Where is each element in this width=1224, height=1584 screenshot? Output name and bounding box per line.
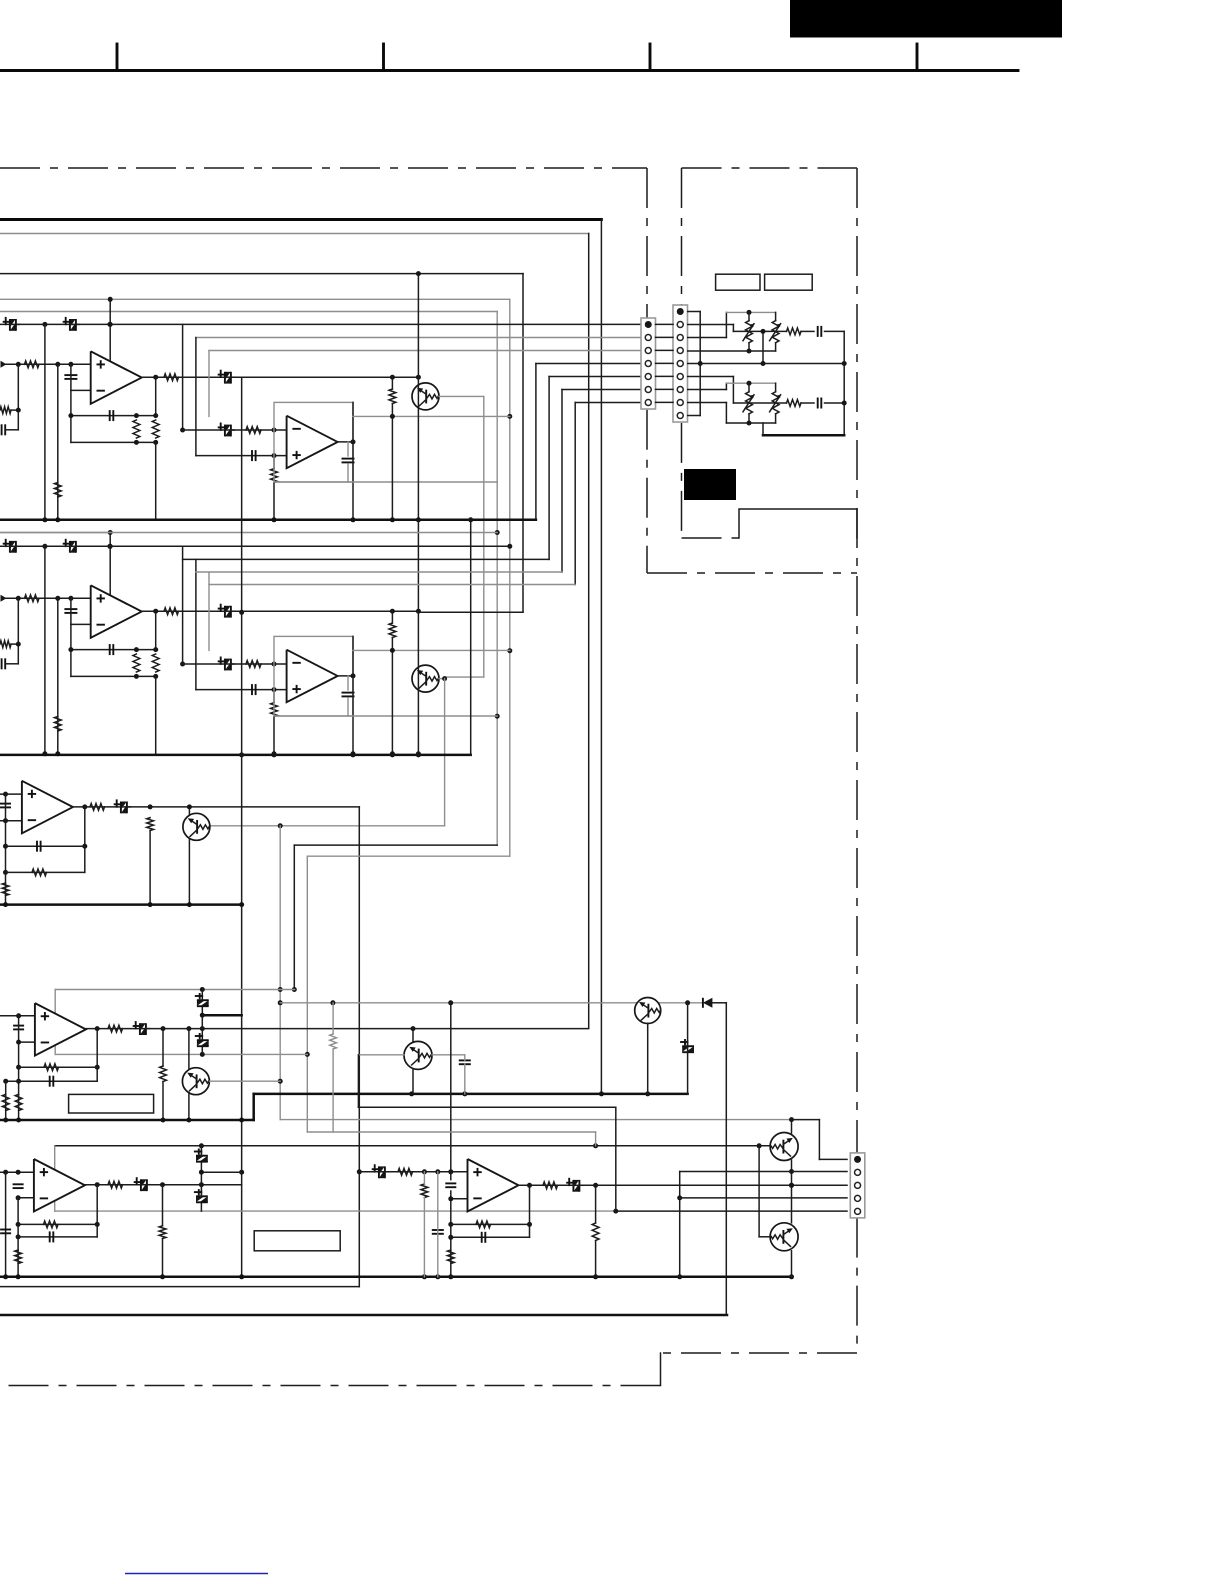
ferrite bead cap on rail 2 — [70, 319, 76, 331]
wire second stage output — [338, 675, 353, 677]
wire ch2 out row extension — [418, 611, 523, 613]
wire vertical x523 — [522, 274, 524, 613]
wire b3 vertical to block5 — [358, 807, 360, 1287]
input coupling cap — [64, 608, 77, 610]
ferrite bead cap on rail 1 — [10, 319, 16, 331]
ferrite bead cap on rail 2 — [70, 541, 76, 553]
wire 5b fb cap row — [451, 1236, 530, 1238]
potentiometer 1a — [748, 312, 750, 320]
wire row 1107 — [358, 1106, 615, 1108]
wire 5b minus row — [451, 1198, 468, 1200]
wire x679 vertical — [679, 1172, 681, 1277]
5b shunt resistor — [421, 1184, 428, 1198]
wire x294 drop — [293, 845, 295, 989]
wire grey row 1133.8 — [307, 1131, 595, 1133]
5a electrolytic cap — [141, 1179, 147, 1191]
wire feedback tail to bus — [155, 442, 157, 519]
series cap on plus row — [251, 450, 253, 461]
bias resistor to edge — [0, 407, 11, 414]
wire CN2 pin8 stub — [688, 402, 727, 404]
second stage series resistor — [246, 661, 261, 668]
b4 feedback cap — [49, 1076, 51, 1087]
wire pot1 wiper row — [733, 330, 786, 332]
wire feedback vertical — [70, 390, 72, 442]
wire x615 vertical — [615, 1107, 617, 1211]
pot network 1 bottom row — [688, 350, 776, 352]
transistor q6 — [404, 1041, 432, 1069]
feedback resistor 2 — [152, 654, 159, 672]
op-amp 5A — [34, 1159, 85, 1212]
5a label box — [254, 1231, 340, 1251]
5a feedback cap — [49, 1231, 51, 1242]
wire b4 transistor emitter row — [210, 1080, 281, 1082]
connector CN3 — [850, 1153, 865, 1218]
op-amp supply vertical — [109, 533, 111, 597]
output load cap — [347, 442, 349, 456]
wire main vertical x418 — [416, 517, 421, 522]
5b ground resistor — [447, 1250, 454, 1264]
wire feedback row 1 — [71, 649, 156, 651]
op-amp 5B — [468, 1159, 519, 1212]
electrolytic cap on minus row — [225, 659, 231, 671]
zener bead — [682, 1046, 694, 1052]
wire b4 shield left — [54, 990, 56, 1055]
wire nested loop left vertical 1 — [182, 546, 184, 664]
wire CN3 pin1 link — [792, 1119, 820, 1121]
wire CN2 pin bus x700 — [688, 311, 701, 313]
dash-dot boundary top — [0, 167, 647, 169]
wire b4 shield bottom row — [55, 1053, 307, 1055]
b4 electrolytic cap — [140, 1023, 146, 1035]
wire CN2 pin7 stub — [688, 389, 727, 391]
wire channel1 main vertical — [417, 274, 419, 520]
wire q6 top — [412, 1029, 414, 1043]
wire row 273.6 — [0, 273, 523, 275]
rail dropper vertical 1 — [44, 324, 46, 519]
dash-dot boundary elbow row — [647, 572, 857, 574]
wire q2b base link — [758, 1146, 760, 1237]
b4 feedback resistor — [44, 1064, 59, 1071]
wire nested loop left vertical 1 — [182, 324, 184, 430]
5a ground resistor — [15, 1250, 22, 1264]
wire 5b input row — [359, 1171, 467, 1173]
b3 electrolytic cap — [121, 802, 127, 814]
wire transistor emitter row — [439, 678, 445, 680]
wire q1b collector — [791, 1120, 793, 1133]
wire CN2 pin2 stub — [688, 324, 734, 326]
wire bead row segment — [42, 544, 47, 549]
wire grey row 1120 — [280, 1119, 791, 1121]
wire box right vertical to bus — [352, 402, 354, 519]
wire vertical x535 — [535, 364, 537, 520]
wire nested loop left vertical 2 — [195, 560, 197, 690]
bus block 5 — [0, 1276, 792, 1279]
wire pot2 return vertical — [843, 364, 845, 436]
wire row 559.4 — [183, 558, 549, 560]
wire 5b fb vertical — [529, 1185, 531, 1237]
dashed main right boundary — [856, 168, 858, 1152]
wire 1107 left corner — [357, 1055, 359, 1108]
input signal arrow — [1, 361, 7, 368]
wire q-chain vertical x280 — [278, 823, 283, 828]
wire main vertical x418 — [416, 751, 421, 756]
wire bus2 to bus1 riser — [470, 520, 472, 755]
wire 5b plus vertical — [450, 1003, 452, 1180]
wire second stage minus row — [183, 663, 287, 665]
op-amp first stage — [91, 351, 142, 404]
plus bias resistor — [271, 703, 278, 717]
5b output resistor — [543, 1182, 558, 1189]
series cap on plus row — [251, 684, 253, 695]
thermal transistor — [412, 383, 439, 410]
wire nested loop left vertical 2 — [195, 338, 197, 456]
blue reference underline — [125, 1573, 268, 1575]
wire corner vertical x726 — [725, 1003, 727, 1315]
b4 ground resistor 2 — [15, 1094, 22, 1110]
input signal arrow — [1, 595, 7, 602]
wire row 233.5 — [0, 233, 589, 235]
electrolytic cap on minus row — [225, 425, 231, 437]
plus bias resistor — [271, 469, 278, 483]
wire transistor emitter row — [439, 395, 484, 397]
potentiometer 2b — [775, 383, 777, 391]
wire CN2 pin3 stub — [688, 337, 727, 339]
wire mid row to x509 — [353, 649, 510, 651]
wire feedback tail to bus — [155, 676, 157, 753]
boundary elbow — [660, 1353, 662, 1386]
rail dropper vertical 2 — [57, 598, 59, 754]
wire nested loop left vertical 3 — [208, 351, 210, 417]
wire b4 left vertical — [18, 1016, 20, 1120]
thermal transistor — [412, 665, 439, 692]
wire vertical x549 — [548, 377, 550, 560]
bus4 riser — [252, 1094, 255, 1120]
b4 output resistor — [108, 1025, 123, 1032]
fold tick 4 — [916, 44, 919, 71]
wire to inverting input — [70, 598, 72, 624]
5b electrolytic cap — [573, 1180, 579, 1192]
wire box bottom row — [274, 715, 497, 717]
wire b3 plus row — [0, 793, 22, 795]
op-amp first stage — [91, 585, 142, 638]
bias resistor to edge — [0, 641, 11, 648]
wire q5 bottom — [647, 1024, 649, 1094]
rail dropper resistor — [54, 716, 61, 731]
feedback resistor 1 — [133, 420, 140, 438]
op-amp block4 — [35, 1003, 86, 1056]
input series resistor — [25, 361, 40, 368]
b4 label box — [69, 1094, 154, 1113]
5b feedback cap — [481, 1232, 483, 1243]
wire row 311.5 — [0, 311, 497, 313]
wire b3 output row — [73, 806, 359, 808]
5b input resistor — [398, 1168, 413, 1175]
transistor pull resistor — [389, 623, 396, 638]
transistor q2b — [770, 1223, 798, 1251]
wire 5b fb res row — [451, 1223, 530, 1225]
wire output row — [142, 610, 419, 612]
rail dropper vertical 1 — [44, 546, 46, 754]
b4 bead cap 2 — [197, 1040, 209, 1046]
wire CN1 pin5 row — [549, 376, 641, 378]
wire row 856 — [307, 855, 510, 857]
wire q1b emitter — [791, 1160, 793, 1223]
page title rule — [0, 69, 1018, 72]
wire b4 fb cap row — [6, 1080, 98, 1082]
rail dropper vertical 2 — [57, 364, 59, 520]
5b input bead cap — [379, 1166, 385, 1178]
wire 5a fb res row — [18, 1223, 97, 1225]
bus channel 1 — [0, 519, 536, 522]
pot network 2 bottom row — [726, 422, 775, 424]
transistor q1b — [770, 1133, 798, 1161]
5a bead cap 1 — [196, 1156, 208, 1162]
pot network 1 top row — [726, 311, 775, 313]
protection diode — [702, 998, 704, 1008]
shield box around second stage — [274, 402, 353, 482]
wire 5b minus vertical — [450, 1191, 452, 1277]
5a output resistor — [108, 1181, 123, 1188]
pot1 series cap — [817, 326, 819, 337]
wire 5a link row — [201, 1171, 241, 1173]
5b load resistor — [592, 1223, 599, 1241]
b4 input cap — [13, 1025, 24, 1027]
output series resistor — [164, 374, 179, 381]
wire vertical x562 — [561, 390, 563, 573]
potentiometer 1b — [775, 312, 777, 320]
5b shunt cap — [432, 1229, 444, 1231]
dash-dot boundary vertical left of CN1 — [646, 168, 648, 318]
op-amp supply vertical — [109, 299, 111, 362]
b4 thermal transistor — [188, 1029, 190, 1069]
wire output row — [142, 376, 419, 378]
wire ch2 grey row — [0, 532, 497, 534]
main board border top — [0, 218, 601, 221]
redacted title block — [790, 0, 1062, 38]
5a feedback resistor — [44, 1221, 59, 1228]
b3 thermal transistor — [188, 807, 190, 814]
wire bead row segment — [42, 322, 47, 327]
5b feedback resistor — [476, 1221, 491, 1228]
feedback resistor 2 — [152, 420, 159, 438]
electrolytic cap on output row — [225, 606, 231, 618]
wire x333 resistor — [332, 1003, 334, 1034]
wire power row — [0, 532, 110, 534]
dashed sub-board box left edge — [681, 168, 683, 305]
wire ch1 transistor drop x483 — [483, 396, 485, 677]
ferrite bead cap on rail 1 — [10, 541, 16, 553]
wire ch2 transistor drop x444 — [442, 676, 447, 681]
wire channel2 main vertical — [417, 520, 419, 755]
output load cap — [347, 676, 349, 690]
wire CN1 pin4 row — [536, 363, 641, 365]
wire b4 shield top row — [55, 989, 294, 991]
wire b4 fb res row — [19, 1066, 98, 1068]
5a bead column — [200, 1146, 202, 1211]
wire CN1 pin2 row — [196, 337, 641, 339]
wire b3 minus row — [0, 820, 22, 822]
wire feedback row 2 — [71, 675, 156, 677]
wire q2b emitter — [791, 1251, 793, 1277]
b3 feedback cap — [36, 841, 38, 852]
output series resistor — [164, 608, 179, 615]
b3 load resistor — [147, 818, 154, 831]
CN1-CN2 link stubs — [656, 323, 674, 325]
b3 ground resistor — [2, 883, 9, 896]
wire pot1 return corner — [843, 331, 845, 363]
wire 5a plus row — [0, 1171, 34, 1173]
5a load resistor — [159, 1226, 166, 1239]
fold tick 3 — [649, 44, 652, 71]
wire 5a top row — [55, 1145, 770, 1147]
bus channel 2 — [0, 754, 471, 757]
wire b3 feedback res row — [6, 871, 85, 873]
wire CN1 pin3 row — [209, 350, 641, 352]
bias capacitor to edge — [1, 424, 3, 435]
sub-board small rectangle 2 — [765, 274, 813, 290]
wire CN1 pin6 row — [562, 389, 641, 391]
wire pot2 thick return — [763, 434, 844, 437]
wire b4 output row — [86, 1028, 589, 1030]
wire CN1 pin7 row — [575, 402, 641, 404]
wire ch2 bead row — [0, 545, 510, 547]
feedback capacitor — [109, 644, 111, 655]
wire b4 plus row — [0, 1015, 35, 1017]
feedback capacitor — [109, 410, 111, 421]
wire 5a fb cap row — [18, 1236, 97, 1238]
wire vertical x509 — [509, 299, 511, 856]
wire feedback vertical — [70, 624, 72, 676]
feedback resistor 1 — [133, 654, 140, 672]
wire vertical x497 — [496, 312, 498, 846]
wire box right vertical to bus — [352, 636, 354, 753]
wire 5a fb vertical — [96, 1185, 98, 1237]
rail dropper resistor — [54, 482, 61, 497]
wire mid row to x509 — [353, 415, 510, 417]
b4 bead column — [201, 990, 203, 1055]
wire 5a minus vertical — [17, 1198, 19, 1277]
wire b3 left vertical — [5, 794, 7, 905]
b4 ground resistor 1 — [2, 1094, 9, 1110]
wire b4 edge vertical — [5, 1081, 7, 1120]
op-amp block3 — [22, 781, 73, 834]
second stage series resistor — [246, 427, 261, 434]
input coupling cap — [64, 374, 77, 376]
shield box around second stage — [274, 636, 353, 716]
wire b3 feedback cap row — [6, 845, 85, 847]
wire input row — [4, 597, 91, 599]
pot2 series cap — [817, 398, 819, 409]
wire CN2 pin5 row — [688, 363, 845, 365]
wire pot2 wiper row — [733, 402, 786, 404]
dash-dot bottom boundary left — [0, 1385, 661, 1387]
fold tick 2 — [382, 44, 385, 71]
b3 feedback resistor — [32, 869, 47, 876]
open rectangle above dashed bottom — [739, 509, 857, 538]
wire nested loop left vertical 3 — [208, 573, 210, 651]
transistor pull resistor — [389, 389, 396, 404]
wire CN1 pin1 row — [0, 323, 641, 325]
bias network vertical — [17, 598, 19, 664]
electrolytic cap on output row — [225, 372, 231, 384]
b4 thick link row — [202, 1014, 241, 1017]
fold tick 1 — [116, 44, 119, 71]
b3 input cap — [0, 803, 11, 805]
wire to inverting input — [70, 364, 72, 390]
pot2 series resistor — [787, 400, 802, 407]
wire b4 transistor to bus — [188, 1094, 190, 1120]
wire row 572.0 — [196, 571, 562, 573]
wire second stage plus row — [196, 689, 287, 691]
wire q6 right row — [432, 1054, 465, 1056]
wire 5a left vertical — [5, 1172, 7, 1277]
main board border bottom — [0, 1314, 727, 1317]
bias network vertical — [17, 364, 19, 430]
wire 5a shield left — [54, 1146, 56, 1211]
potentiometer 2a — [748, 383, 750, 391]
wire CN3 pin2 row — [680, 1171, 847, 1173]
wire 5a output row — [85, 1184, 242, 1186]
wire second stage output — [338, 441, 353, 443]
wire q6 left row — [359, 1054, 404, 1056]
wire vertical x588 — [588, 234, 590, 1028]
main board border right vertical — [600, 220, 602, 1094]
wire q-chain row 1003 — [280, 1002, 703, 1004]
dash-dot bottom boundary right — [661, 1352, 858, 1354]
wire q6 bottom — [412, 1069, 414, 1094]
wire 5a shield bottom row / pin5 row — [55, 1210, 616, 1212]
wire zener vertical — [687, 1003, 689, 1045]
wire row 584.5 — [209, 584, 575, 586]
wire input row — [4, 363, 91, 365]
5a edge cap — [0, 1229, 11, 1231]
op-amp second stage — [287, 416, 338, 469]
wire second stage plus row — [196, 455, 287, 457]
wire x307 drop — [306, 856, 308, 1132]
wire b4 fb vertical — [96, 1029, 98, 1082]
5a input cap — [13, 1183, 24, 1185]
wire pot1 tap vertical — [762, 331, 764, 363]
bias capacitor to edge — [1, 658, 3, 669]
wire output vertical to feedback — [155, 611, 157, 649]
wire CN3 pin4 row — [680, 1197, 847, 1199]
sub-board small rectangle 1 — [716, 274, 760, 290]
wire vertical x575 — [574, 403, 576, 585]
5a bead cap 2 — [196, 1196, 208, 1202]
op-amp second stage — [287, 650, 338, 703]
pot1 series resistor — [787, 328, 802, 335]
pot network 2 top row — [726, 382, 775, 384]
wire feedback row 2 — [71, 441, 156, 443]
wire row 845 — [294, 844, 497, 846]
bus block 3 — [0, 903, 242, 906]
connector CN1 — [641, 318, 656, 409]
wire row 1287 — [0, 1286, 359, 1288]
b3 output resistor — [90, 804, 105, 811]
input series resistor — [25, 595, 40, 602]
dashed sub-board box top edge — [682, 167, 858, 169]
wire row 299.3 — [0, 298, 510, 300]
wire diode to corner — [712, 1002, 726, 1004]
5b input cap — [445, 1182, 456, 1184]
wire feedback row 1 — [71, 415, 156, 417]
wire b3 output feedback vertical — [84, 807, 86, 873]
q6 bypass cap — [459, 1059, 471, 1061]
wire output vertical to feedback — [155, 377, 157, 415]
black label box on sub-board — [684, 469, 736, 500]
dashed sub-board box bottom edge — [682, 537, 740, 539]
transistor q5 — [635, 998, 661, 1024]
